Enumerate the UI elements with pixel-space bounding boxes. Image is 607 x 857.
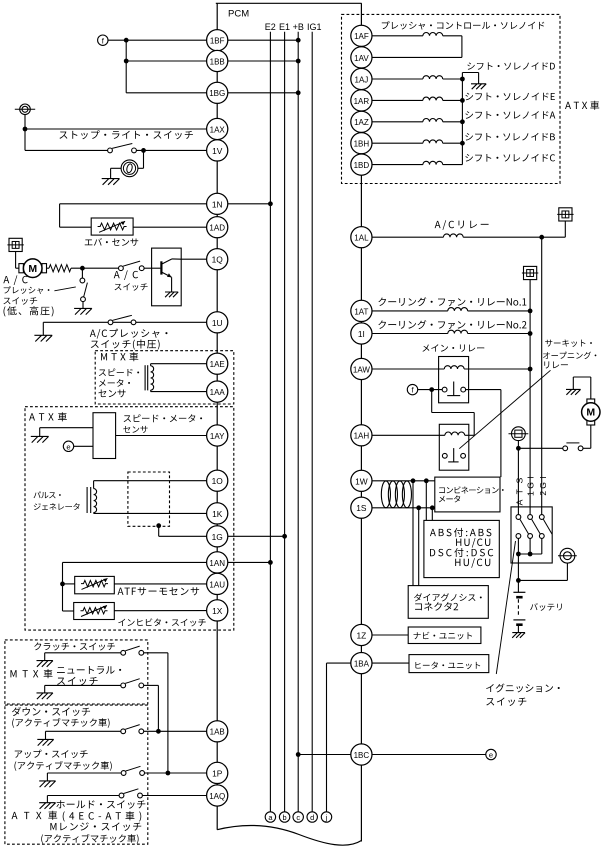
svg-text:1Z: 1Z: [357, 631, 367, 641]
svg-text:1AJ: 1AJ: [355, 75, 369, 84]
svg-text:1N: 1N: [212, 199, 223, 209]
svg-text:IG1: IG1: [307, 22, 322, 32]
svg-text:1AZ: 1AZ: [354, 118, 369, 127]
svg-text:1AF: 1AF: [354, 32, 369, 41]
svg-text:e: e: [489, 751, 493, 760]
svg-text:1BF: 1BF: [210, 37, 225, 46]
svg-text:1AX: 1AX: [210, 125, 226, 134]
svg-text:1S: 1S: [356, 503, 367, 513]
svg-text:1BC: 1BC: [354, 751, 370, 760]
svg-text:S: S: [515, 478, 525, 484]
svg-text:1: 1: [526, 491, 536, 496]
svg-text:1AE: 1AE: [210, 360, 225, 369]
svg-text:M: M: [28, 263, 37, 275]
svg-text:1P: 1P: [212, 768, 223, 778]
svg-text:A: A: [515, 499, 525, 505]
svg-text:1V: 1V: [212, 146, 223, 156]
svg-text:j: j: [325, 813, 328, 822]
svg-text:E1: E1: [279, 22, 290, 32]
svg-text:1AV: 1AV: [354, 54, 369, 63]
svg-text:I: I: [526, 476, 536, 478]
svg-text:1AW: 1AW: [353, 365, 370, 374]
svg-text:PCM: PCM: [228, 8, 249, 19]
svg-text:1AQ: 1AQ: [209, 792, 225, 801]
svg-text:1X: 1X: [212, 606, 223, 616]
svg-text:1BA: 1BA: [354, 659, 370, 668]
svg-text:G: G: [526, 482, 536, 489]
svg-text:d: d: [310, 813, 314, 822]
svg-text:1BB: 1BB: [210, 57, 225, 66]
svg-text:+B: +B: [293, 22, 304, 32]
svg-text:1AY: 1AY: [210, 432, 225, 441]
svg-text:1O: 1O: [212, 476, 224, 486]
svg-text:1I: 1I: [358, 329, 365, 339]
svg-text:E2: E2: [265, 22, 276, 32]
svg-text:1U: 1U: [212, 318, 223, 328]
svg-text:1AB: 1AB: [210, 728, 225, 737]
svg-text:1K: 1K: [212, 509, 223, 519]
svg-text:1Q: 1Q: [212, 255, 224, 265]
svg-text:1BH: 1BH: [354, 140, 370, 149]
svg-text:G: G: [538, 482, 548, 489]
svg-text:1AT: 1AT: [354, 307, 368, 316]
svg-text:1G: 1G: [212, 532, 223, 542]
svg-text:1AU: 1AU: [209, 580, 225, 589]
svg-text:1AH: 1AH: [354, 432, 370, 441]
svg-text:c: c: [296, 813, 300, 822]
svg-text:1BD: 1BD: [354, 161, 370, 170]
svg-text:I: I: [538, 476, 548, 478]
svg-text:1AD: 1AD: [209, 224, 225, 233]
svg-text:1BG: 1BG: [209, 89, 225, 98]
svg-text:2: 2: [538, 491, 548, 496]
svg-text:1W: 1W: [355, 476, 368, 486]
svg-text:M: M: [586, 407, 595, 419]
svg-text:b: b: [283, 813, 287, 822]
svg-text:1AA: 1AA: [210, 388, 226, 397]
svg-text:e: e: [66, 442, 70, 451]
svg-text:1AL: 1AL: [354, 234, 369, 243]
svg-text:1AN: 1AN: [209, 559, 225, 568]
svg-text:1AR: 1AR: [354, 97, 370, 106]
svg-text:T: T: [515, 488, 525, 494]
